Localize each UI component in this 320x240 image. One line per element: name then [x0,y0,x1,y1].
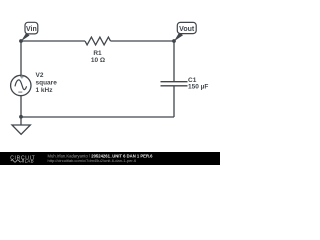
svg-text:1 kHz: 1 kHz [36,87,54,94]
CircuitLab logo [10,156,35,164]
wire left vertical lower (V2 bottom terminal to ground node) [20,96,22,118]
wire right vertical lower (C1 bottom plate to bottom wire) [173,86,175,117]
svg-text:150 µF: 150 µF [188,83,208,90]
node junction dot Vout [172,39,176,43]
wire left vertical upper (node Vin to V2 top terminal) [20,41,22,76]
svg-text:LAB: LAB [25,158,34,163]
svg-text:Vin: Vin [26,26,37,33]
wire bottom horizontal (ground node to C1 branch) [21,116,174,118]
svg-text:square: square [36,79,58,86]
svg-text:R1: R1 [93,50,102,57]
voltage source V2 [11,72,58,96]
ground [12,117,30,134]
flag Vin [21,22,38,41]
svg-text:Vout: Vout [179,26,195,33]
wire right vertical upper (node Vout to C1 top plate) [173,41,175,82]
wire top-right horizontal (R1 right lead to node Vout) [111,40,175,42]
wire top-left horizontal (node Vin to R1 left lead) [21,40,85,42]
resistor R1 [85,37,111,64]
node junction dot (ground / bottom wire) [19,115,23,119]
node junction dot Vin [19,39,23,43]
footer bar [0,152,220,165]
svg-text:V2: V2 [36,72,44,79]
svg-text:http://circuitlab.com/c/7dm45u: http://circuitlab.com/c/7dm45u2/unit-6-d… [48,158,137,163]
capacitor C1 [161,77,209,90]
svg-text:10 Ω: 10 Ω [91,57,105,64]
flag Vout [174,22,196,41]
